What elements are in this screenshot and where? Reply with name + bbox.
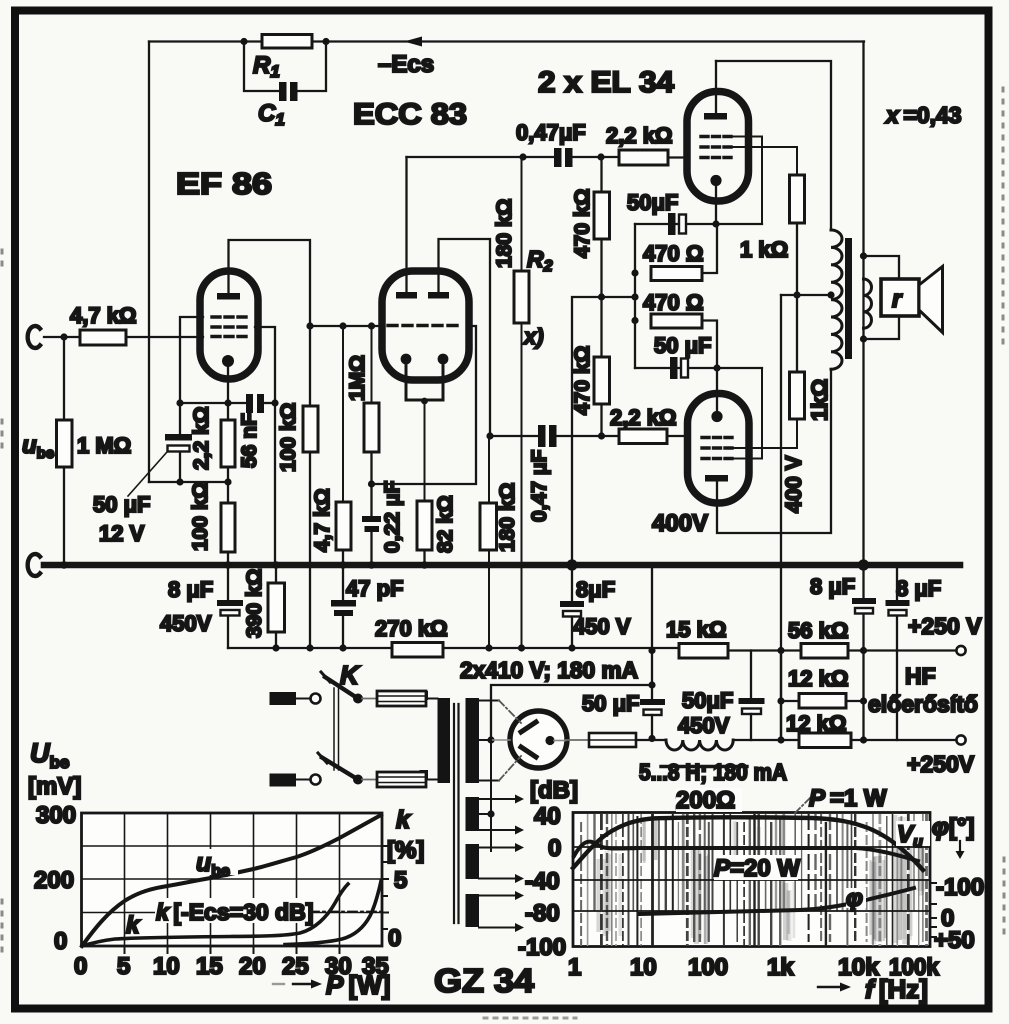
resistor 82 kOhm [417,501,432,550]
svg-text:470 Ω: 470 Ω [643,290,703,315]
svg-text:8 μF: 8 μF [168,577,213,602]
svg-text:φ[°]: φ[°] [932,814,974,841]
tube EL34 lower envelope [688,394,750,504]
node: bus 0.22uF [368,561,376,569]
svg-text:82 kΩ: 82 kΩ [434,495,457,553]
svg-text:0: 0 [388,925,401,952]
node: bias 470ohm-1 [631,269,638,276]
node: psu1 on 410V wire [648,681,655,688]
wire: 4.7k line down [342,326,344,502]
EL34-1 g1 dashes [701,156,731,159]
svg-text:50 μF: 50 μF [93,492,150,517]
wire: HV top stub [479,700,499,702]
node: input/1M junction [60,333,67,340]
heater tap arrow 3 [479,843,524,852]
node: 56k/8uF junction [860,647,867,654]
ECC83 anode bar a1 [396,292,417,299]
wire: 12k-2 leads and +250V-2 [781,739,799,741]
label 200 Ohm [676,787,742,814]
graph gridline -80dB [573,910,930,912]
wire: ladder vertical right [862,651,864,741]
switch K plug lower [270,774,297,787]
svg-text:+250V: +250V [907,751,975,777]
GZ34 cathode dot [545,736,554,745]
wire: cathode-1 bias rail [635,223,762,225]
svg-text:K: K [340,660,361,690]
curve phi [640,888,914,914]
resistor 1 kOhm upper [790,175,805,223]
node: 12k-1 left [777,697,784,704]
switch K plug upper [270,692,297,705]
label P [W] with arrow [273,980,322,989]
-Ecs arrow [404,37,422,47]
label Vu [896,821,930,851]
fuse mains lower [377,772,426,787]
svg-text:15 kΩ: 15 kΩ [666,617,726,642]
wire: EF86 anode up and over to 100k [229,240,311,326]
wire: 50uF psu1 bottom [651,715,653,738]
wire: R2 bottom to 270k feed (crosses bus) [521,323,523,648]
choke 5...8H [666,740,733,750]
resistor R1 [262,35,312,49]
svg-text:180 kΩ: 180 kΩ [496,483,519,552]
resistor 470 Ohm lower [651,314,702,328]
wire: 100k anode load top [309,326,311,406]
wire: cap to 2.2k-2 [557,435,620,437]
primary terminal square upper [420,691,429,700]
node: psu1 on feed rail [648,647,655,654]
wire: heater CT stub [479,813,491,815]
svg-text:+250 V: +250 V [908,613,982,639]
EL34-2 g2 dashes [702,446,732,449]
switch pivot lower [353,775,363,785]
node: screen line junction [271,399,278,406]
resistor 100 kOhm anode load [303,406,318,452]
svg-text:0: 0 [74,953,87,980]
mains heater winding 3 bar [466,844,480,879]
output transformer primary winding [831,230,842,369]
wire: cap to 2.2k grid stopper [572,156,619,158]
node: 470k-2 bottom junction [598,432,605,439]
heater tap arrow 4 [479,874,524,883]
output transformer secondary winding [864,279,872,328]
capacitor 50 uF lower bypass [670,357,678,379]
node: 4.7k tap [339,322,346,329]
ground bus left terminal [28,554,40,576]
curve k at -Ecs=30dB [82,884,348,946]
wire: center tap toward rectifier [491,739,510,741]
resistor 12 kOhm upper [799,694,846,709]
switch pivot upper [353,694,363,704]
svg-text:4,7 kΩ: 4,7 kΩ [311,488,334,552]
EF86 grid g1 dashes [212,335,247,338]
wire: choke to 400V node [733,739,781,741]
node: R1 left junction [240,38,247,45]
switch link bar [333,688,335,770]
node: 12k-2 right [860,736,867,743]
wire: cathode-2 bias rail [635,367,762,369]
node: psu1 on choke wire [648,735,655,742]
wire: anode a1 up to coupling node [405,157,407,292]
GZ34 anode plate 1 [521,722,536,732]
svg-text:előerősítő: előerősítő [868,691,978,717]
wire: 82k to bus [423,550,425,565]
mains transformer primary winding bar [438,698,451,783]
axis ticks right k-scale [382,846,388,929]
resistor 12 kOhm lower [799,733,851,748]
svg-text:12 V: 12 V [99,521,145,546]
feedback/secondary line from top rail to ground [862,42,864,566]
node: bus bias return [566,559,577,570]
svg-text:P [W]: P [W] [326,970,390,1000]
svg-text:2,2 kΩ: 2,2 kΩ [606,123,673,148]
wire: GZ34 cathode out [554,740,566,742]
capacitor 47 pF [331,600,356,607]
svg-text:450V: 450V [160,611,212,636]
wire: secondary bottom to speaker [864,316,900,339]
node: 470k-junction mid wire [598,293,605,300]
svg-text:-80: -80 [525,900,560,927]
svg-text:50μF: 50μF [627,190,678,215]
svg-text:5: 5 [394,867,407,894]
EL34-2 g1 dashes [702,436,732,439]
node: 47pF on 270k wire [339,644,346,651]
graph gridline h 200 [82,878,383,880]
node: R1 right junction [322,38,329,45]
axis ticks bottom [125,946,340,953]
capacitor 8 uF 450V second [571,568,573,601]
svg-text:450V: 450V [678,713,730,738]
svg-text:470 kΩ: 470 kΩ [571,189,594,258]
node: on 270k wire [306,644,313,651]
wire: 1k-1 to center tap node [796,223,798,295]
svg-text:56 kΩ: 56 kΩ [788,618,848,643]
svg-text:50 μF: 50 μF [582,691,639,716]
resistor R2 180 kOhm [514,271,529,323]
svg-text:–Ecs: –Ecs [378,51,434,78]
svg-text:200: 200 [34,867,74,894]
wire: 12k-1 leads [781,700,799,702]
svg-text:EF 86: EF 86 [176,166,272,201]
wire: EL34-2 screen to 1k-2 [732,419,797,448]
capacitor 8 uF third [862,568,864,598]
wire: 0.22uF to bus [370,532,372,565]
wire: 50uF bottom [179,452,181,482]
svg-text:470 kΩ: 470 kΩ [571,346,594,415]
wire: ladder vertical left [780,651,782,741]
tube EL34 upper envelope [687,92,749,202]
switch contact circle lower [311,775,321,785]
heater tap arrow 5 [479,891,524,900]
svg-text:390 kΩ: 390 kΩ [243,569,266,638]
input terminal [28,326,40,348]
wire: fuse to choke [636,739,666,741]
label k [-Ecs=30 dB] [155,898,313,925]
mains heater winding 2 bar [466,797,480,831]
heater tap arrow 6 [479,923,524,932]
svg-text:2,2 kΩ: 2,2 kΩ [190,406,213,470]
node: bus 82k [421,561,429,569]
svg-text:180 kΩ: 180 kΩ [493,199,516,268]
node: cathode-2 junction [713,364,720,371]
mains transformer HV secondary bar [466,698,480,783]
svg-text:0: 0 [54,928,67,955]
svg-text:5: 5 [117,953,130,980]
svg-text:-100: -100 [518,934,566,961]
wire: EL34-1 anode to transformer top [716,61,831,230]
svg-text:1: 1 [568,954,581,981]
resistor 470 kOhm upper [594,192,610,239]
wire: 1M input resistor top [63,337,65,420]
capacitor 8 uF 450V first [227,568,229,600]
graph gridline v 25 [296,813,298,946]
feedback rail from speaker to R1 (top wire, -Ecs rail) [149,40,864,42]
resistor 1 MOhm ECC83 [364,403,379,452]
ECC83 anode bar a2 [428,292,449,299]
resistor 2,2 kOhm cathode [221,420,235,467]
wire: 1k-2 top to center tap node [796,295,798,372]
resistor 470 Ohm upper [651,267,702,281]
wire: 4.7k to bus and through [342,550,344,600]
svg-text:2,2 kΩ: 2,2 kΩ [610,405,677,430]
EF86 cathode dot [222,355,234,367]
node: cathode mid [421,398,428,405]
svg-text:[%]: [%] [387,837,424,864]
wire: EF86 cathode down [227,366,229,420]
svg-text:40: 40 [534,803,561,830]
svg-text:[mV]: [mV] [28,773,81,800]
resistor 4,7 kOhm [336,502,351,550]
wire: 2.2k to EL34 grid [668,156,688,158]
wire: HV bottom diagonal to plate [499,756,521,781]
wire: EL34-2 cathode up [716,368,718,411]
svg-text:8μF: 8μF [576,577,615,602]
node: bias mid [631,293,638,300]
curve u_be [82,815,381,946]
speaker box [881,279,919,316]
wire: pivot to fuse lower [362,779,377,781]
rectifier GZ34 envelope [510,711,567,768]
tube ECC83 envelope [382,271,469,380]
graph gridline v 20 [253,813,255,946]
switch contact circle upper [311,694,321,704]
svg-text:ECC 83: ECC 83 [353,98,467,131]
svg-text:-100: -100 [936,874,984,901]
ECC83 cathode dot k2 [438,354,449,365]
wire: 390k leads [275,568,277,583]
svg-text:8 μF: 8 μF [810,574,855,599]
leader line 50uF label [128,452,167,496]
wire: 2.2k to junction [227,467,229,503]
node: bias 470ohm-2 [631,317,638,324]
wire: 470k-1 leads [600,157,602,192]
EL34-2 anode bar [705,475,728,482]
wire: HV top diagonal to plate [499,701,521,724]
wire: 50uF psu1 riser [651,569,653,699]
EF86 grid g2 dashes [212,325,247,328]
wire: C1 parallel loop [244,42,278,92]
label f [Hz] with arrow [818,983,851,992]
svg-text:x =0,43: x =0,43 [884,102,962,128]
svg-text:400 V: 400 V [781,455,806,513]
wire: anode1 node to coupling cap [407,156,555,158]
wire: 180k-2 leads (crosses bus) [488,436,490,503]
label P=20W [714,855,800,882]
capacitor C1 [279,82,287,101]
resistor 1 MOhm input [57,420,73,467]
wire: 1M grid leak top [371,326,373,403]
wire: EL34-2 g3 to cathode [732,368,762,459]
choke core line [661,765,747,768]
wire: 270k feed rail [228,647,392,649]
svg-text:k: k [126,912,141,939]
mains transformer core [453,704,455,923]
svg-text:470 Ω: 470 Ω [643,241,703,266]
tube EF86 envelope [200,271,258,379]
curve Vu P=20W [574,842,918,861]
curve k full power [285,881,381,945]
ECC83 grid dashes [388,324,463,327]
wire: 470ohm-1 right to cathode node [702,228,717,273]
svg-text:50 μF: 50 μF [654,333,711,358]
node: 12k-2 left [777,736,784,743]
svg-text:2x410 V; 180 mA: 2x410 V; 180 mA [460,657,638,683]
svg-text:k [-Ecs=30 dB]: k [-Ecs=30 dB] [156,899,313,925]
node: bus 100k cathode / 8uF [224,561,232,569]
svg-text:270 kΩ: 270 kΩ [375,616,448,641]
graph: frequency response plot frame [573,813,930,947]
svg-text:25: 25 [282,953,309,980]
wire: 470k mid to ground bus [572,297,635,565]
wire: EL34-1 anode up [715,61,717,113]
capacitor 0,47 uF lower [538,425,546,447]
svg-text:100 kΩ: 100 kΩ [189,482,212,551]
svg-text:100: 100 [688,954,728,981]
wire: EL34-1 cathode down [715,186,717,224]
wire: 410V rail to center tap [491,685,652,740]
wire: 56nF to screen line [264,402,275,404]
wire: center tap to 400V [781,294,831,296]
capacitor 0,22 uF [362,516,381,522]
node: screens junction [793,291,800,298]
graph gridline v 15 [210,813,212,946]
node: 180k-2 top on coupling wire [486,432,493,439]
wire: plug to contact upper [296,698,310,700]
output transformer core [845,238,852,359]
node: transformer center tap [827,291,834,298]
wire: anode a2 up and over [439,239,491,436]
node: secondary bottom [860,335,867,342]
node: bus 390k [272,561,280,569]
node: cathode-1 junction [712,220,719,227]
svg-text:1kΩ: 1kΩ [807,379,832,421]
resistor 1 kOhm lower [790,372,805,419]
wire: cathode node horizontal [180,402,246,404]
svg-text:+50: +50 [934,927,975,954]
curve Vu P=1W [573,817,923,870]
EL34-2 g3 dashes [702,457,732,460]
wire: feedback line down left side [148,42,150,483]
resistor 180 kOhm lower grid leak [480,503,497,550]
svg-text:k: k [396,806,411,834]
switch arm upper [325,677,358,699]
resistor 470 kOhm lower [594,357,610,404]
EL34-1 g2 dashes [701,145,731,148]
wire: EL34-1 screen to 1k [731,147,797,175]
wire: 100k to bus [227,552,229,565]
svg-text:100 kΩ: 100 kΩ [277,403,300,472]
svg-text:10: 10 [153,953,180,980]
terminal +250V upper [956,646,965,655]
svg-text:300: 300 [36,802,76,829]
resistor 2,2 kOhm grid2 [619,429,667,444]
svg-text:12 kΩ: 12 kΩ [788,666,848,691]
resistor 390 kOhm [268,583,285,632]
resistor 100 kOhm cathode [221,503,235,552]
resistor 270 kOhm [392,643,443,658]
capacitor 0,47 uF upper [554,148,562,167]
svg-text:20: 20 [239,953,266,980]
right axis ticks [930,883,936,937]
graph gridline v 10 [167,813,169,946]
node: 400V on feed rail [777,647,784,654]
label P=1W with leader [795,796,812,813]
capacitor 50 uF psu1 [640,699,665,705]
wire: 100k anode load to 270k node (crosses bus) [309,452,311,648]
svg-text:56 nF: 56 nF [238,413,261,468]
wire: pivot to fuse upper [362,698,377,700]
svg-text:5...8 H; 180 mA: 5...8 H; 180 mA [639,759,787,785]
node: 12k-1 right [860,697,867,704]
graph gridline v 30 [339,813,341,946]
wire: HV bottom stub [479,780,499,782]
wire: R2 top lead [521,157,523,271]
node: bus speaker return [858,559,869,570]
wire: 470k-2 leads [600,297,602,357]
graph gridline h 250 [82,845,383,847]
fuse psu [589,733,636,747]
heater tap arrow 1 [479,795,524,804]
wire: 1M to ground bus [63,467,65,565]
wire: 400 V supply line (crosses bus) [780,295,782,740]
wire: 47pF to 270k wire [342,616,344,648]
graph gridline v 5 [124,813,126,946]
EF86 anode bar [217,293,240,300]
svg-text:GZ 34: GZ 34 [434,962,535,999]
wire: EL34-1 g3 to cathode [731,137,762,225]
svg-text:200Ω: 200Ω [676,787,735,814]
graph gridline 0dB [573,846,930,848]
capacitor 50 uF 12V plates [165,434,192,441]
svg-text:P=20 W: P=20 W [714,855,800,882]
graph: Ube vs P plot frame [82,813,383,946]
wire: 2.2k-2 to EL34-2 grid [667,435,688,437]
label u_be curve [194,849,238,880]
svg-text:400V: 400V [652,510,708,537]
wire: input to 4.7k [44,336,80,338]
EL34-2 cathode dot [711,411,722,422]
wire: secondary top to speaker [864,256,900,279]
wire: HV center tap [479,739,491,741]
node: bus 47pF [339,561,347,569]
svg-text:HF: HF [905,663,936,689]
svg-text:8 μF: 8 μF [896,576,941,601]
dash-dot gridline extension [310,911,381,913]
wire: fuse to primary lower [426,779,438,781]
phi axis arrow [956,841,965,859]
svg-text:4,7 kΩ: 4,7 kΩ [70,303,137,328]
resistor 56 kOhm [801,644,848,659]
